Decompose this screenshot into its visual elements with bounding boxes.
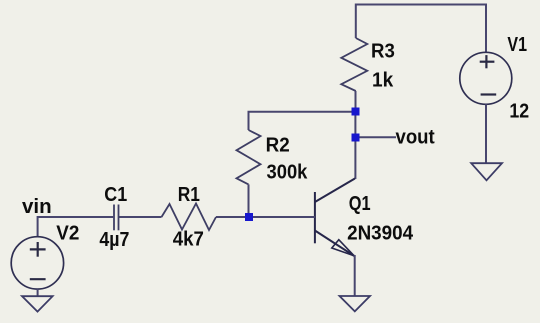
transistor Q1 bbox=[315, 179, 355, 257]
svg-text:vin: vin bbox=[22, 196, 52, 218]
svg-text:V2: V2 bbox=[56, 223, 79, 245]
wire R3 bottom to collector node bbox=[355, 91, 357, 112]
ground at V1 bbox=[471, 163, 502, 180]
wire V2 to C1 bbox=[38, 217, 114, 237]
capacitor C1 bbox=[114, 205, 119, 231]
wire R1 to base node bbox=[216, 216, 249, 218]
wire C1 to R1 bbox=[119, 216, 162, 218]
svg-text:4k7: 4k7 bbox=[173, 229, 204, 251]
svg-text:vout: vout bbox=[396, 126, 436, 148]
svg-text:Q1: Q1 bbox=[349, 193, 371, 215]
wire collector node down to Q1 collector bbox=[354, 112, 356, 180]
wire vout stub bbox=[356, 136, 397, 138]
svg-text:R3: R3 bbox=[371, 41, 395, 63]
resistor R2 bbox=[237, 130, 261, 184]
wire base wire from node to Q1 base bbox=[249, 216, 315, 218]
ground at emitter bbox=[340, 296, 371, 311]
voltage source V1 bbox=[460, 52, 512, 104]
wire V2 to ground stub bbox=[37, 289, 39, 296]
wire top rail from R3 to V1 bbox=[356, 5, 486, 53]
node junction base bbox=[245, 213, 253, 221]
svg-text:R2: R2 bbox=[266, 134, 290, 156]
svg-text:R1: R1 bbox=[178, 184, 200, 206]
node junction R3/R2/collector bbox=[352, 108, 360, 116]
wire from collector node left and down to R2 bbox=[249, 112, 356, 130]
svg-text:C1: C1 bbox=[104, 184, 127, 206]
ground at V2 bbox=[22, 296, 53, 311]
svg-text:1k: 1k bbox=[372, 70, 394, 92]
node junction vout bbox=[352, 134, 360, 142]
wire emitter to ground bbox=[354, 255, 356, 296]
svg-text:V1: V1 bbox=[507, 34, 527, 56]
wire V1 bottom to ground bbox=[485, 104, 487, 163]
svg-text:2N3904: 2N3904 bbox=[347, 222, 414, 244]
resistor R1 bbox=[162, 204, 217, 231]
voltage source V2 bbox=[11, 237, 63, 289]
svg-text:4µ7: 4µ7 bbox=[99, 229, 129, 251]
svg-text:12: 12 bbox=[509, 101, 529, 123]
resistor R3 bbox=[341, 38, 367, 91]
svg-text:300k: 300k bbox=[267, 161, 309, 183]
wire R2 bottom to base node bbox=[248, 184, 250, 217]
